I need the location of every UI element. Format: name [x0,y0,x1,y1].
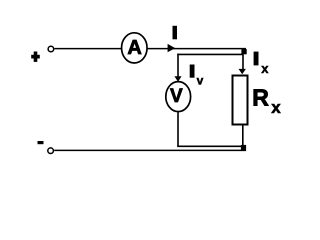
svg-text:x: x [271,98,281,117]
label Ix [254,52,270,76]
svg-text:A: A [127,37,141,59]
ammeter label A [127,37,141,59]
terminal node - [48,148,54,154]
resistor Rx [233,76,248,125]
label + (positive terminal sign) [31,52,40,62]
wire: node 1 to resistor [242,54,244,71]
voltmeter U2 [166,82,191,112]
wire: resistor to node 2 [242,126,244,147]
label Rx [252,85,281,117]
wire: voltmeter branch horizontal [177,53,243,55]
terminal node + [48,46,54,52]
current arrow Ix [239,69,246,74]
voltmeter label V [170,86,183,107]
wire: voltmeter to node 2 [177,112,241,146]
label - (negative terminal sign) [38,141,44,144]
svg-text:R: R [252,85,269,111]
current arrow Iv [174,76,181,82]
wire: + terminal to ammeter [54,48,122,50]
node 1 junction [241,49,246,54]
current arrow I [168,44,176,52]
node 2 junction [241,145,246,150]
svg-text:v: v [197,73,204,87]
wire: - terminal to node 2 [54,149,246,151]
svg-text:x: x [261,61,269,76]
ammeter U1 [122,33,148,63]
label Iv [190,65,204,88]
label I [173,26,178,40]
wire: ammeter to node 1 [148,48,247,50]
wire: voltmeter branch vertical [177,54,179,78]
svg-text:V: V [170,86,183,107]
